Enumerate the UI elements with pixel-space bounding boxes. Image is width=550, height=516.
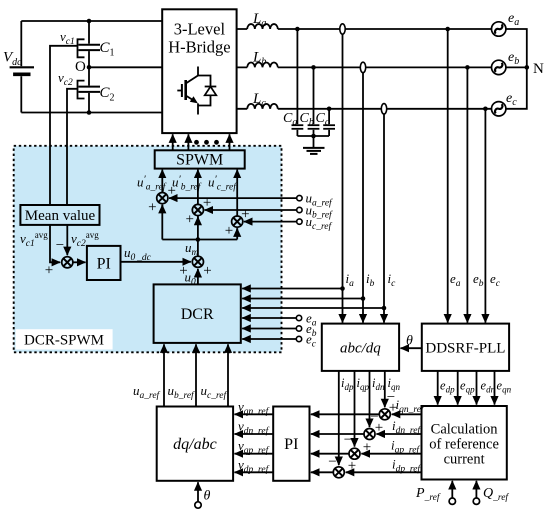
svg-text:N: N bbox=[533, 61, 544, 77]
voltage sensor vc1 bracket bbox=[78, 39, 85, 57]
voltage sensor vc2 bracket bbox=[78, 81, 85, 99]
current sensor CT ib bbox=[360, 62, 365, 72]
SPWM box bbox=[155, 150, 245, 168]
inductor Lc bbox=[247, 104, 278, 109]
svg-text:Mean value: Mean value bbox=[25, 208, 96, 224]
svg-text:ic: ic bbox=[388, 271, 397, 289]
svg-text:+: + bbox=[203, 263, 211, 279]
wire J1 to PI bbox=[311, 413, 379, 415]
summing junction J4 idp bbox=[333, 467, 344, 478]
wire S3 to SPWM bbox=[236, 170, 238, 216]
node N bbox=[525, 65, 530, 70]
DCR-SPWM blue dashed region bbox=[14, 146, 282, 352]
wire J3 to PI bbox=[311, 453, 349, 455]
wire eb sense to DDSRF-PLL bbox=[466, 67, 468, 322]
node ea sense tap bbox=[445, 27, 450, 32]
svg-text:Q_ref: Q_ref bbox=[483, 486, 509, 503]
summing junction J1 iqn bbox=[379, 409, 390, 420]
svg-text:vc2: vc2 bbox=[58, 70, 73, 88]
svg-text:Cb: Cb bbox=[300, 111, 314, 128]
wire bottom DC rail bbox=[21, 112, 162, 114]
svg-text:ea: ea bbox=[508, 11, 519, 28]
svg-text:eb: eb bbox=[508, 50, 519, 67]
svg-text:DCR: DCR bbox=[181, 306, 214, 323]
svg-text:DCR-SPWM: DCR-SPWM bbox=[24, 333, 104, 349]
svg-text:eb: eb bbox=[473, 271, 484, 289]
wire idn_ref Calc to J2 bbox=[376, 433, 421, 435]
current sensor CT ic bbox=[381, 104, 386, 114]
svg-text:iqp: iqp bbox=[357, 376, 370, 392]
PI box voltage loop bbox=[87, 246, 121, 280]
svg-text:eqn: eqn bbox=[497, 379, 512, 395]
terminal P_ref bbox=[449, 498, 455, 504]
wire vc2 sense to Mean value bbox=[67, 89, 78, 205]
svg-text:θ: θ bbox=[204, 489, 211, 504]
svg-text:−: − bbox=[328, 454, 336, 470]
svg-text:ia: ia bbox=[346, 271, 355, 289]
wire J2 to PI bbox=[311, 433, 364, 435]
terminal ec DCR input bbox=[296, 336, 301, 341]
wire top DC rail bbox=[21, 20, 162, 22]
summing junction J3 iqp bbox=[349, 448, 360, 459]
wire J4 to PI bbox=[311, 471, 333, 473]
current sensor ib wire to abc/dq bbox=[362, 70, 364, 322]
AC source ec bbox=[492, 91, 518, 116]
svg-text:iqn_ref: iqn_ref bbox=[396, 397, 425, 415]
AC source ea bbox=[492, 11, 520, 36]
DDSRF-PLL box bbox=[422, 324, 509, 371]
node ic branch to DCR bbox=[382, 306, 387, 311]
wire uc_ref dq/abc to DCR bbox=[227, 344, 229, 406]
wire ec sense to DDSRF-PLL bbox=[484, 109, 486, 323]
svg-text:P_ref: P_ref bbox=[415, 486, 441, 503]
wire iqn_ref Calc to J1 bbox=[392, 413, 422, 415]
wire um distribution branch bbox=[162, 205, 237, 256]
wire vqn_ref PI to dq/abc bbox=[235, 413, 274, 415]
gate drive arrows SPWM to H-Bridge bbox=[173, 134, 230, 150]
wire ua_ref dq/abc to DCR bbox=[163, 344, 165, 406]
svg-text:DDSRF-PLL: DDSRF-PLL bbox=[425, 341, 505, 357]
wire ea to DCR bbox=[242, 317, 296, 319]
svg-text:Vdc: Vdc bbox=[3, 50, 22, 69]
wire iqn abc/dq to J1 bbox=[384, 371, 386, 407]
terminal theta dq/abc bbox=[195, 502, 201, 508]
svg-text:θ: θ bbox=[406, 334, 413, 349]
wire vc1 sense to Mean value bbox=[50, 46, 78, 205]
svg-text:ib: ib bbox=[366, 271, 375, 289]
capacitor Cb bbox=[308, 67, 320, 136]
wire ub_ref to S2 bbox=[205, 209, 297, 211]
capacitor Ca bbox=[292, 29, 304, 136]
svg-text:PI: PI bbox=[97, 256, 111, 273]
svg-text:Lc: Lc bbox=[252, 91, 266, 109]
summing junction um bbox=[192, 256, 203, 267]
capacitor Cc bbox=[323, 109, 335, 136]
ground bbox=[303, 136, 325, 154]
svg-text:eqp: eqp bbox=[460, 379, 475, 395]
wire idn abc/dq to J2 bbox=[369, 371, 371, 427]
wire idp abc/dq to J4 bbox=[338, 371, 340, 465]
wire S1 to SPWM bbox=[161, 170, 163, 193]
inductor La bbox=[247, 24, 278, 29]
svg-text:idp: idp bbox=[341, 376, 354, 392]
wire ic to DCR bbox=[242, 307, 384, 309]
svg-text:abc/dq: abc/dq bbox=[340, 341, 381, 357]
wire edp PLL to Calc bbox=[437, 371, 439, 405]
svg-text:edn: edn bbox=[481, 379, 496, 395]
wire vc2avg to S5 bbox=[66, 225, 68, 255]
wire phase c line bbox=[237, 108, 492, 110]
wire S2 to SPWM bbox=[197, 170, 199, 205]
terminal ua_ref bbox=[297, 195, 302, 200]
wire P_ref to Calc bbox=[451, 481, 453, 498]
AC source eb bbox=[492, 50, 520, 75]
wire vqp_ref PI to dq/abc bbox=[235, 453, 274, 455]
summing junction S2 bbox=[192, 204, 203, 215]
wire phase b line bbox=[237, 66, 492, 68]
terminal ub_ref bbox=[297, 207, 302, 212]
svg-text:PI: PI bbox=[284, 436, 298, 453]
inductor Lb bbox=[247, 62, 278, 67]
node ec sense tap bbox=[483, 107, 488, 112]
svg-text:Calculation: Calculation bbox=[431, 422, 499, 438]
wire eqn PLL to Calc bbox=[494, 371, 496, 405]
svg-text:+: + bbox=[45, 263, 53, 279]
svg-text:La: La bbox=[252, 11, 266, 29]
svg-text:idp_ref: idp_ref bbox=[392, 457, 421, 475]
svg-text:dq/abc: dq/abc bbox=[173, 436, 217, 453]
IGBT with freewheeling diode icon bbox=[177, 67, 216, 115]
wire neutral bus bbox=[506, 29, 527, 109]
node phase c filter tap bbox=[327, 107, 332, 112]
svg-text:+: + bbox=[148, 200, 156, 216]
wire eqp PLL to Calc bbox=[457, 371, 459, 405]
svg-text:ea: ea bbox=[450, 271, 461, 289]
Mean value box bbox=[20, 205, 99, 225]
battery Vdc bbox=[10, 21, 34, 113]
node capacitor common bbox=[311, 134, 316, 139]
terminal ea DCR input bbox=[296, 315, 301, 320]
current sensor ia wire to abc/dq bbox=[342, 32, 344, 323]
dq/abc box bbox=[157, 407, 233, 481]
dots between gate arrows bbox=[194, 140, 219, 145]
node O bbox=[87, 65, 92, 70]
node phase a filter tap bbox=[295, 27, 300, 32]
wire theta into dq/abc bbox=[197, 482, 199, 502]
node um branch bbox=[196, 237, 201, 242]
svg-text:uc_ref: uc_ref bbox=[201, 383, 228, 401]
svg-text:idn_ref: idn_ref bbox=[392, 418, 421, 436]
abc/dq box bbox=[322, 324, 399, 371]
wire ib to DCR bbox=[242, 298, 363, 300]
wire vdn_ref PI to dq/abc bbox=[235, 433, 274, 435]
svg-text:C1: C1 bbox=[100, 40, 115, 59]
svg-text:Cc: Cc bbox=[316, 111, 330, 128]
wire eb to DCR bbox=[242, 328, 296, 330]
svg-text:+: + bbox=[241, 207, 249, 223]
wire ua_ref to S1 bbox=[169, 197, 297, 199]
PI box current loop bbox=[273, 407, 309, 481]
summing junction S5 bbox=[62, 257, 73, 268]
wire idp_ref Calc to J4 bbox=[346, 471, 422, 473]
svg-text:vc1: vc1 bbox=[60, 29, 75, 47]
wire ea sense to DDSRF-PLL bbox=[447, 29, 449, 323]
wire ub_ref dq/abc to DCR bbox=[195, 344, 197, 406]
node ib branch to DCR bbox=[361, 296, 366, 301]
node ia branch to DCR bbox=[340, 286, 345, 291]
wire iqp_ref Calc to J3 bbox=[361, 453, 421, 455]
wire phase a line bbox=[237, 28, 492, 30]
svg-text:current: current bbox=[444, 452, 485, 468]
wire capacitor common bbox=[297, 135, 329, 137]
svg-text:C2: C2 bbox=[100, 85, 115, 104]
wire node O to bridge bbox=[89, 66, 162, 68]
svg-text:SPWM: SPWM bbox=[176, 152, 223, 169]
node phase b filter tap bbox=[311, 65, 316, 70]
wire S5 to PI bbox=[73, 261, 86, 263]
wire ia to DCR bbox=[242, 288, 342, 290]
svg-text:−: − bbox=[344, 432, 352, 448]
node top rail / C1 junction bbox=[87, 19, 92, 24]
wire u0 DCR to um junction bbox=[197, 269, 199, 285]
wire Q_ref to Calc bbox=[475, 481, 477, 498]
svg-text:edp: edp bbox=[440, 379, 455, 395]
wire ec to DCR bbox=[242, 338, 296, 340]
capacitor C2 bbox=[79, 67, 101, 112]
svg-text:idn: idn bbox=[372, 376, 385, 392]
svg-text:O: O bbox=[75, 59, 86, 75]
svg-text:3-Level: 3-Level bbox=[174, 20, 226, 39]
wire theta PLL to abc/dq bbox=[401, 347, 422, 349]
node eb sense tap bbox=[465, 65, 470, 70]
Calculation of reference current box bbox=[422, 406, 507, 480]
svg-text:Ca: Ca bbox=[283, 111, 297, 128]
node bottom rail / C2 junction bbox=[87, 110, 92, 115]
3-Level H-Bridge box bbox=[162, 9, 236, 133]
svg-text:iqp_ref: iqp_ref bbox=[391, 438, 420, 456]
summing junction S3 bbox=[232, 216, 243, 227]
svg-text:Lb: Lb bbox=[252, 50, 266, 68]
svg-text:ua_ref: ua_ref bbox=[133, 383, 161, 401]
svg-text:ub_ref: ub_ref bbox=[168, 383, 196, 401]
summing junction J2 idn bbox=[364, 429, 375, 440]
wire PI to um junction bbox=[121, 261, 191, 263]
DCR box bbox=[154, 284, 241, 343]
wire vdp_ref PI to dq/abc bbox=[235, 471, 274, 473]
svg-text:+: + bbox=[225, 223, 233, 239]
terminal uc_ref bbox=[297, 219, 302, 224]
terminal Q_ref bbox=[473, 498, 479, 504]
svg-text:−: − bbox=[56, 238, 64, 254]
current sensor ic wire to abc/dq bbox=[383, 112, 385, 323]
wire edn PLL to Calc bbox=[476, 371, 478, 405]
svg-text:of reference: of reference bbox=[429, 437, 499, 453]
wire vc1avg to S5 bbox=[50, 225, 55, 262]
current sensor CT ia bbox=[340, 24, 345, 34]
capacitor C1 bbox=[79, 21, 101, 67]
wire iqp abc/dq to J3 bbox=[354, 371, 356, 447]
wire uc_ref to S3 bbox=[244, 221, 297, 223]
summing junction S1 bbox=[157, 193, 168, 204]
svg-text:+: + bbox=[185, 211, 193, 227]
svg-text:H-Bridge: H-Bridge bbox=[168, 38, 230, 57]
svg-text:ec: ec bbox=[490, 271, 501, 289]
svg-text:ec: ec bbox=[506, 91, 517, 108]
terminal eb DCR input bbox=[296, 326, 301, 331]
svg-text:+: + bbox=[167, 183, 175, 199]
